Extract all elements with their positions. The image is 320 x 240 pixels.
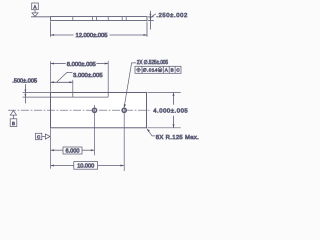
dim 8.000 dimension line xyxy=(51,63,109,65)
svg-text:A: A xyxy=(165,68,168,73)
side view step right edge line xyxy=(107,17,109,21)
left edge extension line (6.000 / 10.000 dims) xyxy=(50,129,52,169)
hole callout leader xyxy=(124,63,136,108)
position symbol xyxy=(137,68,140,71)
dim 4.000 dimension line xyxy=(173,93,175,128)
hole 2 xyxy=(122,104,126,171)
front view part outline xyxy=(51,93,147,128)
svg-text:6.000: 6.000 xyxy=(66,149,81,155)
svg-text:C: C xyxy=(37,135,40,140)
side view step edge line xyxy=(72,17,74,21)
dim 3.000 text leader xyxy=(57,72,73,82)
dim .250 leader and arrows xyxy=(149,11,155,30)
datum A symbol xyxy=(32,3,39,17)
dim 10.000 basic xyxy=(51,162,124,170)
svg-text:8.000±.005: 8.000±.005 xyxy=(67,62,97,68)
feature control frame xyxy=(135,66,181,73)
svg-text:10.000: 10.000 xyxy=(77,164,95,170)
svg-text:.250±.002: .250±.002 xyxy=(156,13,187,19)
svg-text:∅.014: ∅.014 xyxy=(143,67,158,72)
dim 8.000 right extension line xyxy=(107,61,109,93)
datum C symbol xyxy=(36,133,51,139)
circled M modifier xyxy=(158,68,162,72)
datum B symbol xyxy=(10,111,17,127)
dim 8.000 left extension line xyxy=(50,61,52,92)
dim 12.000 dimension line xyxy=(51,34,148,36)
dim .500 extension lines xyxy=(23,92,50,94)
datum A surface extension line xyxy=(31,16,51,18)
svg-text:3.000±.005: 3.000±.005 xyxy=(73,73,103,79)
svg-text:M: M xyxy=(159,68,162,72)
dim 3.000 right extension line xyxy=(72,80,74,93)
svg-text:2X ∅.525±.005: 2X ∅.525±.005 xyxy=(137,59,168,66)
horizontal centerline xyxy=(8,109,151,111)
svg-text:C: C xyxy=(176,68,180,73)
front view step: left vertical edge xyxy=(72,93,74,98)
dim 3.000 dimension line with outward arrows xyxy=(51,81,73,83)
svg-text:B: B xyxy=(171,68,174,73)
hole 1 xyxy=(92,105,96,155)
side view hole 2 hidden lines xyxy=(121,17,123,21)
svg-text:A: A xyxy=(34,5,37,10)
svg-text:12.000±.005: 12.000±.005 xyxy=(76,33,109,39)
dim 12.000 extension lines xyxy=(50,22,52,37)
svg-text:B: B xyxy=(12,121,15,126)
dim 6.000 basic xyxy=(51,147,95,155)
svg-text:8X R.125 Max.: 8X R.125 Max. xyxy=(156,135,199,141)
svg-text:4.000±.005: 4.000±.005 xyxy=(153,109,188,115)
side view part outline xyxy=(51,17,148,21)
leader 8X R.125 xyxy=(147,128,156,136)
dim 4.000 extension lines xyxy=(148,92,181,94)
dim .250 extension lines xyxy=(148,16,154,18)
front view step: right vertical edge (merges with 8.000 extension) xyxy=(107,93,109,98)
dim .500 dimension line and arrows xyxy=(24,84,26,103)
side view hole 1 hidden lines xyxy=(91,17,93,21)
front view step: bottom edge xyxy=(73,96,108,98)
svg-text:.500±.005: .500±.005 xyxy=(12,78,37,84)
